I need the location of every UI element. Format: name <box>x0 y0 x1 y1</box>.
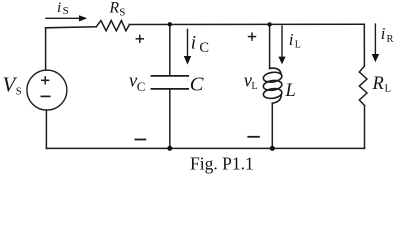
wire inductor branch top <box>269 24 271 68</box>
svg-text:C: C <box>137 79 146 94</box>
polarity minus vL <box>247 136 259 138</box>
capacitor C plates <box>151 76 188 89</box>
polarity plus vL <box>248 32 256 40</box>
wire left vertical (top-left corner down to Vs top) <box>45 28 47 70</box>
svg-text:R: R <box>372 74 384 94</box>
svg-text:R: R <box>109 0 120 17</box>
resistor RS <box>96 21 129 31</box>
voltage source minus sign <box>41 95 51 97</box>
svg-text:C: C <box>199 40 209 56</box>
voltage source plus sign <box>41 76 49 84</box>
svg-text:S: S <box>16 87 22 98</box>
wire capacitor branch bottom <box>169 89 171 148</box>
current arrow iS <box>45 15 87 21</box>
polarity minus vC <box>135 139 147 141</box>
svg-text:L: L <box>251 81 257 92</box>
svg-text:i: i <box>289 30 294 49</box>
resistor RL <box>359 66 367 106</box>
current arrow iR <box>372 23 379 62</box>
svg-text:S: S <box>63 5 69 17</box>
svg-text:L: L <box>285 81 296 101</box>
current arrow iC <box>184 29 191 65</box>
wire top-left segment <box>46 27 97 28</box>
node junction dot inductor bottom <box>270 146 275 151</box>
wire right vertical (RL to bottom corner) <box>364 106 366 149</box>
node junction dot inductor top <box>267 22 271 26</box>
svg-text:i: i <box>191 32 196 53</box>
current arrow iL <box>278 25 285 64</box>
wire left vertical (Vs bottom to bottom-left corner) <box>45 110 47 148</box>
svg-text:i: i <box>57 0 61 16</box>
svg-text:i: i <box>381 24 386 43</box>
wire right vertical (top corner to RL) <box>363 24 365 66</box>
svg-text:L: L <box>295 40 301 51</box>
polarity plus vC <box>136 35 144 43</box>
inductor L coil <box>263 68 283 103</box>
wire inductor branch bottom <box>271 103 273 148</box>
svg-text:R: R <box>387 34 394 45</box>
wire capacitor branch top <box>169 24 171 76</box>
node junction dot capacitor top <box>168 22 172 26</box>
wire bottom <box>46 147 364 149</box>
wire top middle segment <box>130 23 365 25</box>
svg-text:S: S <box>119 6 125 18</box>
svg-text:L: L <box>385 83 392 95</box>
voltage source VS circle <box>27 70 67 110</box>
node junction dot capacitor bottom <box>167 146 172 151</box>
svg-text:Fig. P1.1: Fig. P1.1 <box>190 154 254 174</box>
svg-text:C: C <box>190 74 204 96</box>
